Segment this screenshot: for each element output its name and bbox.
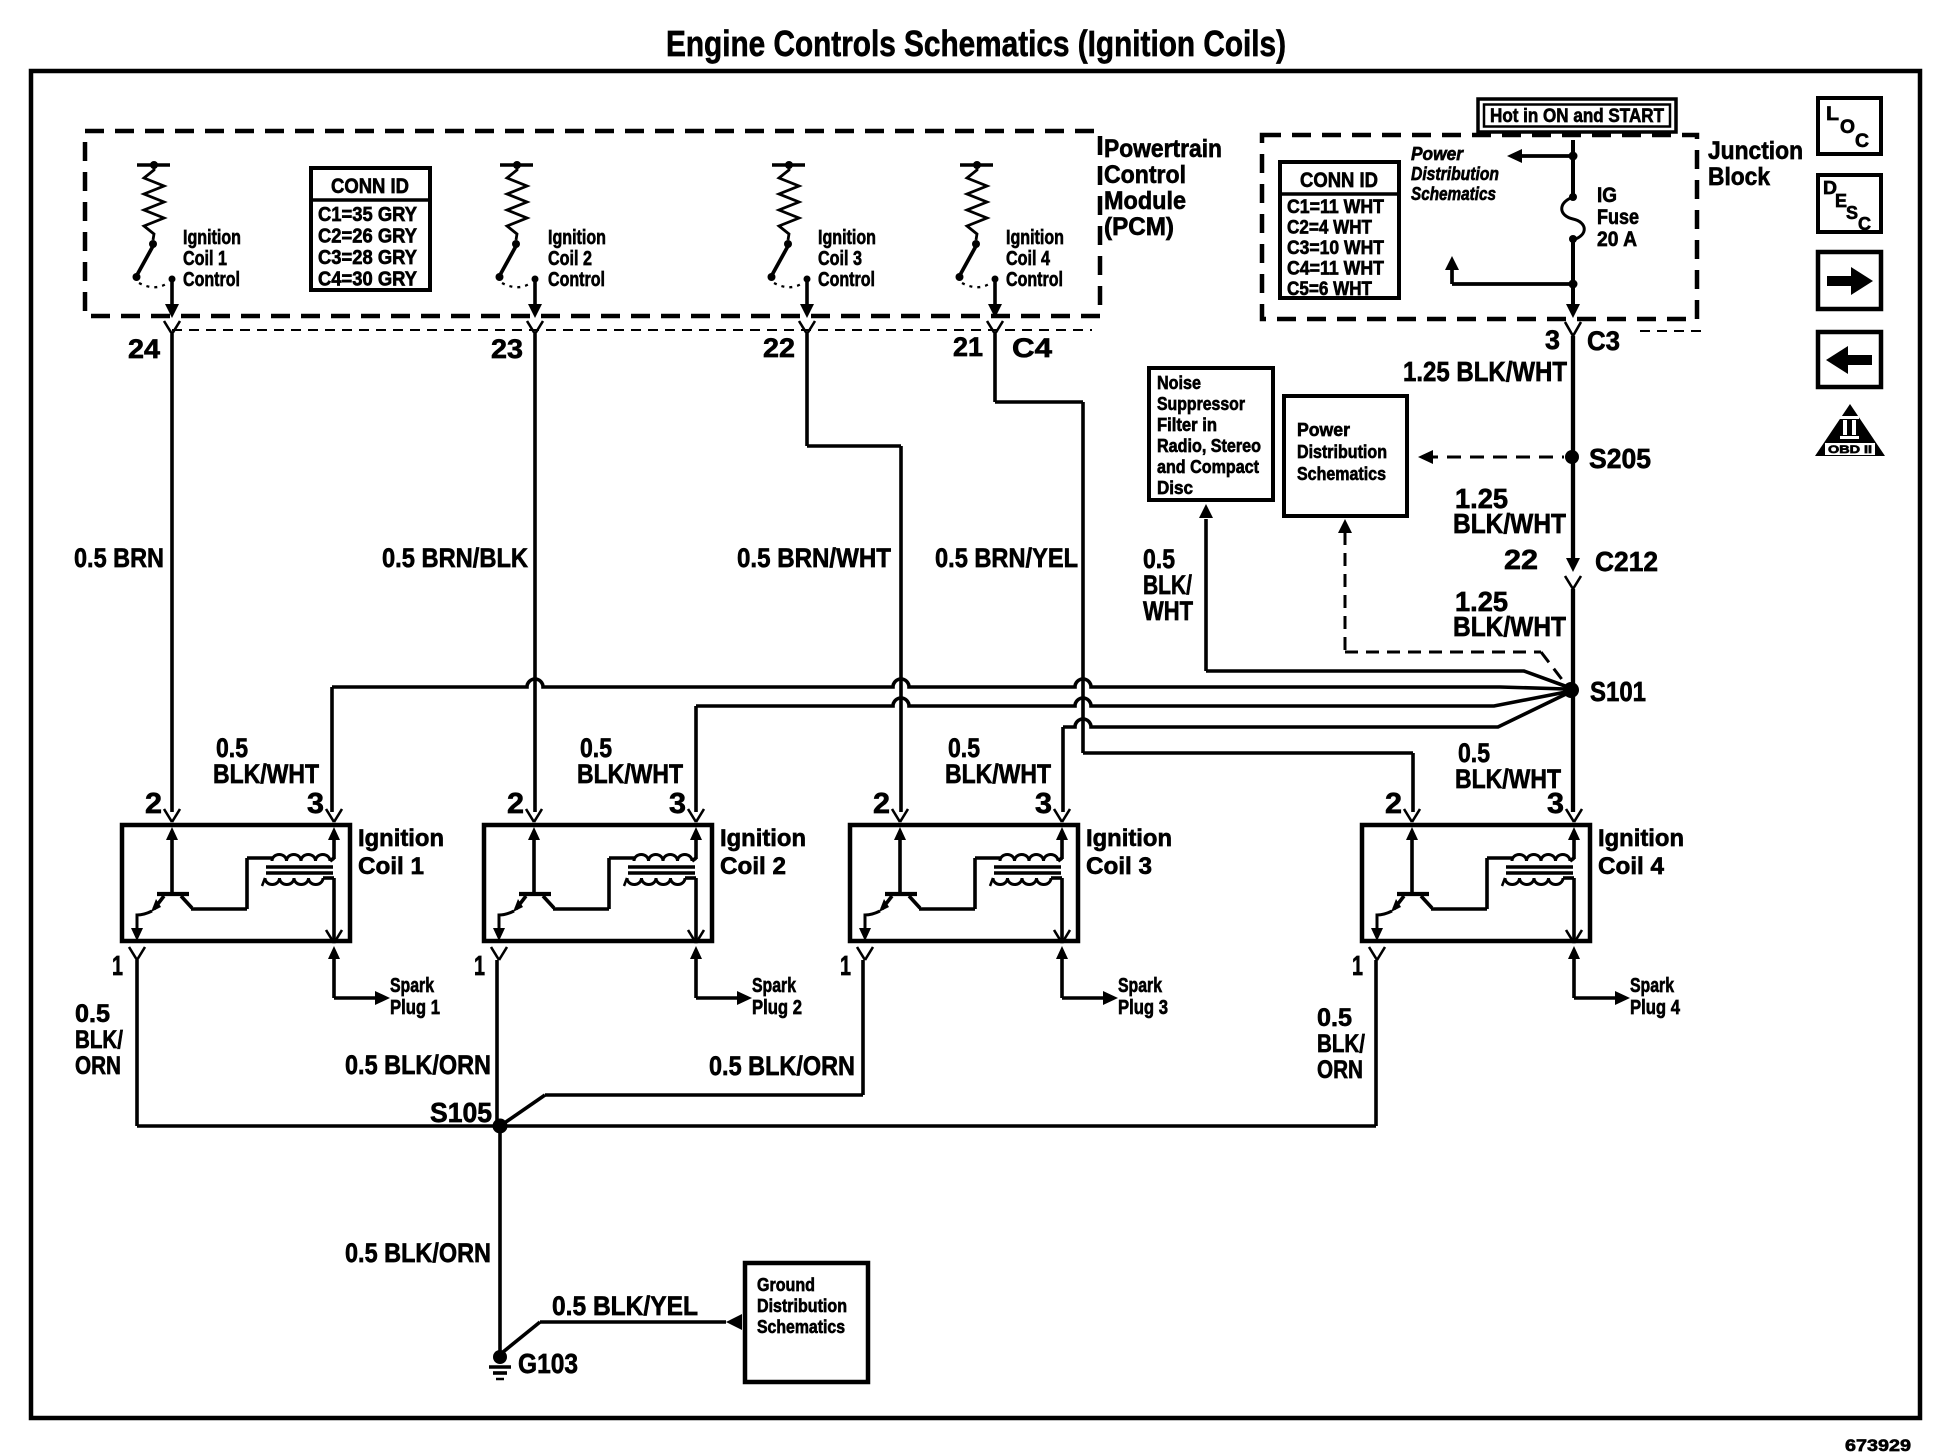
svg-text:3: 3: [1545, 325, 1560, 355]
svg-text:C: C: [1855, 131, 1869, 152]
svg-text:Disc: Disc: [1157, 478, 1193, 498]
svg-text:C4=30 GRY: C4=30 GRY: [318, 269, 418, 291]
svg-text:2: 2: [1385, 788, 1402, 820]
svg-text:BLK/WHT: BLK/WHT: [213, 759, 319, 789]
svg-text:BLK/WHT: BLK/WHT: [945, 759, 1051, 789]
svg-text:Block: Block: [1708, 163, 1770, 191]
svg-text:Engine Controls Schematics (Ig: Engine Controls Schematics (Ignition Coi…: [666, 23, 1286, 64]
svg-text:Spark: Spark: [1630, 975, 1675, 997]
svg-text:Power: Power: [1297, 420, 1350, 440]
svg-text:C1=35 GRY: C1=35 GRY: [318, 204, 418, 226]
svg-text:Ground: Ground: [757, 1275, 815, 1295]
svg-text:Power: Power: [1411, 144, 1464, 164]
svg-text:C1=11 WHT: C1=11 WHT: [1287, 196, 1384, 218]
svg-text:ORN: ORN: [1317, 1056, 1363, 1084]
svg-text:0.5: 0.5: [1317, 1004, 1352, 1032]
svg-text:Schematics: Schematics: [757, 1317, 845, 1337]
svg-text:2: 2: [507, 788, 524, 820]
svg-text:Control: Control: [1006, 269, 1063, 291]
svg-text:CONN ID: CONN ID: [331, 175, 409, 198]
svg-text:Ignition: Ignition: [1598, 825, 1684, 852]
svg-text:Coil 2: Coil 2: [548, 248, 592, 270]
svg-text:Plug 1: Plug 1: [390, 997, 440, 1019]
svg-text:2: 2: [873, 788, 890, 820]
svg-text:and Compact: and Compact: [1157, 457, 1259, 477]
svg-text:Plug 4: Plug 4: [1630, 997, 1681, 1019]
svg-text:23: 23: [491, 334, 523, 364]
svg-text:BLK/WHT: BLK/WHT: [577, 759, 683, 789]
svg-text:1: 1: [474, 950, 485, 981]
svg-text:(PCM): (PCM): [1104, 213, 1174, 241]
svg-text:Coil 1: Coil 1: [358, 853, 424, 880]
svg-text:21: 21: [953, 332, 983, 362]
svg-text:Powertrain: Powertrain: [1104, 135, 1222, 163]
svg-text:Ignition: Ignition: [1006, 227, 1064, 249]
svg-text:0.5 BLK/ORN: 0.5 BLK/ORN: [709, 1051, 855, 1081]
svg-text:3: 3: [669, 788, 686, 820]
svg-text:20 A: 20 A: [1597, 228, 1637, 251]
svg-text:Hot in ON and START: Hot in ON and START: [1490, 106, 1664, 127]
svg-text:Ignition: Ignition: [1086, 825, 1172, 852]
svg-text:CONN ID: CONN ID: [1300, 169, 1378, 192]
svg-text:0.5 BLK/ORN: 0.5 BLK/ORN: [345, 1050, 491, 1080]
svg-text:C3: C3: [1587, 326, 1620, 356]
svg-text:C212: C212: [1595, 546, 1658, 577]
svg-text:0.5 BRN/YEL: 0.5 BRN/YEL: [935, 543, 1078, 573]
svg-text:IG: IG: [1597, 184, 1617, 207]
svg-text:Plug 2: Plug 2: [752, 997, 802, 1019]
svg-text:C2=4 WHT: C2=4 WHT: [1287, 217, 1372, 239]
svg-text:Radio, Stereo: Radio, Stereo: [1157, 436, 1261, 456]
svg-text:0.5 BLK/YEL: 0.5 BLK/YEL: [552, 1291, 698, 1321]
svg-text:Distribution: Distribution: [1411, 164, 1499, 184]
svg-text:BLK/: BLK/: [75, 1026, 123, 1054]
svg-text:BLK/WHT: BLK/WHT: [1453, 508, 1566, 539]
svg-text:3: 3: [1035, 788, 1052, 820]
svg-text:Coil 3: Coil 3: [818, 248, 862, 270]
svg-text:Spark: Spark: [752, 975, 797, 997]
svg-text:1: 1: [840, 950, 851, 981]
svg-text:C2=26 GRY: C2=26 GRY: [318, 226, 418, 248]
svg-text:Spark: Spark: [1118, 975, 1163, 997]
svg-text:0.5 BRN/WHT: 0.5 BRN/WHT: [737, 543, 891, 573]
svg-text:Control: Control: [818, 269, 875, 291]
svg-text:Coil 1: Coil 1: [183, 248, 227, 270]
svg-text:Spark: Spark: [390, 975, 435, 997]
svg-text:C: C: [1858, 214, 1871, 234]
svg-text:BLK/WHT: BLK/WHT: [1453, 611, 1566, 642]
svg-text:C5=6 WHT: C5=6 WHT: [1287, 278, 1372, 300]
svg-text:Coil 4: Coil 4: [1006, 248, 1051, 270]
svg-text:Distribution: Distribution: [757, 1296, 847, 1316]
svg-text:22: 22: [1504, 544, 1538, 575]
svg-text:WHT: WHT: [1143, 596, 1193, 626]
svg-text:BLK/: BLK/: [1317, 1030, 1365, 1058]
svg-text:24: 24: [128, 334, 160, 364]
svg-text:673929: 673929: [1845, 1436, 1911, 1455]
svg-text:3: 3: [1547, 788, 1564, 820]
svg-text:Coil 2: Coil 2: [720, 853, 786, 880]
svg-text:S: S: [1846, 203, 1858, 223]
svg-text:0.5 BRN/BLK: 0.5 BRN/BLK: [382, 543, 528, 573]
svg-text:1: 1: [112, 950, 123, 981]
svg-text:Schematics: Schematics: [1297, 464, 1386, 484]
svg-text:0.5 BRN: 0.5 BRN: [74, 543, 164, 573]
svg-text:Distribution: Distribution: [1297, 442, 1387, 462]
svg-text:Control: Control: [1104, 161, 1186, 189]
svg-text:Coil 4: Coil 4: [1598, 853, 1665, 880]
svg-text:OBD II: OBD II: [1828, 444, 1872, 456]
svg-text:2: 2: [145, 788, 162, 820]
svg-text:Ignition: Ignition: [818, 227, 876, 249]
svg-text:Ignition: Ignition: [720, 825, 806, 852]
svg-text:Coil 3: Coil 3: [1086, 853, 1152, 880]
svg-text:Filter in: Filter in: [1157, 415, 1217, 435]
svg-text:22: 22: [763, 333, 795, 363]
svg-text:Module: Module: [1104, 187, 1186, 215]
svg-text:S105: S105: [430, 1097, 492, 1128]
svg-text:Ignition: Ignition: [548, 227, 606, 249]
svg-text:0.5: 0.5: [75, 1000, 110, 1028]
svg-text:Control: Control: [183, 269, 240, 291]
svg-text:C3=10 WHT: C3=10 WHT: [1287, 237, 1384, 259]
svg-text:Suppressor: Suppressor: [1157, 394, 1245, 414]
svg-text:BLK/WHT: BLK/WHT: [1455, 764, 1561, 794]
svg-text:Fuse: Fuse: [1597, 206, 1639, 229]
svg-text:Schematics: Schematics: [1411, 184, 1496, 204]
svg-text:0.5 BLK/ORN: 0.5 BLK/ORN: [345, 1238, 491, 1268]
svg-text:Ignition: Ignition: [183, 227, 241, 249]
svg-text:1: 1: [1352, 950, 1363, 981]
svg-text:ORN: ORN: [75, 1052, 121, 1080]
svg-text:Plug 3: Plug 3: [1118, 997, 1168, 1019]
svg-text:C4=11 WHT: C4=11 WHT: [1287, 258, 1384, 280]
svg-text:C3=28 GRY: C3=28 GRY: [318, 247, 418, 269]
svg-text:3: 3: [307, 788, 324, 820]
svg-text:G103: G103: [518, 1348, 578, 1379]
svg-text:O: O: [1840, 117, 1855, 138]
svg-text:Junction: Junction: [1708, 137, 1803, 165]
svg-text:Control: Control: [548, 269, 605, 291]
svg-text:1.25 BLK/WHT: 1.25 BLK/WHT: [1403, 356, 1567, 387]
svg-text:L: L: [1826, 104, 1839, 125]
svg-text:Ignition: Ignition: [358, 825, 444, 852]
svg-text:Noise: Noise: [1157, 373, 1201, 393]
svg-text:S205: S205: [1589, 443, 1651, 474]
svg-text:C4: C4: [1012, 333, 1052, 363]
svg-text:S101: S101: [1590, 676, 1646, 707]
